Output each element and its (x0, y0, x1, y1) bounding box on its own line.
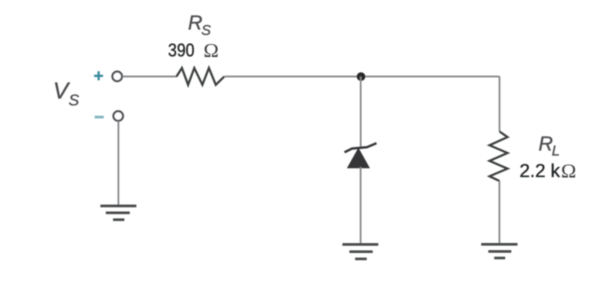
svg-text:R: R (539, 133, 553, 155)
node - terminal (source negative) (95, 116, 104, 119)
left ground (100, 206, 136, 220)
wire junction down to zener (360, 77, 362, 149)
svg-text:+: + (94, 66, 104, 85)
svg-text:390: 390 (168, 40, 195, 60)
zener diode D1 anode triangle (348, 149, 369, 168)
wire right corner down to resistor RL (499, 77, 501, 132)
terminal circle bottom (113, 111, 123, 121)
wire resistor RS to right corner (224, 76, 499, 78)
wire - terminal down to left ground (117, 121, 119, 206)
svg-text:L: L (552, 143, 560, 159)
svg-text:R: R (188, 12, 202, 34)
svg-text:2.2 k: 2.2 k (520, 161, 562, 181)
svg-text:S: S (201, 23, 211, 39)
right ground (481, 244, 517, 258)
wire zener to middle ground (360, 167, 362, 244)
middle ground (342, 244, 378, 259)
wire resistor RL to right ground (498, 181, 500, 244)
svg-text:S: S (69, 93, 80, 110)
resistor RS zigzag (177, 68, 225, 85)
zener diode D1 cathode bar (345, 143, 377, 152)
svg-text:Ω: Ω (204, 40, 219, 62)
svg-text:Ω: Ω (561, 161, 576, 183)
resistor RL zigzag (490, 132, 508, 182)
terminal circle top (112, 72, 122, 82)
wire from + terminal to resistor RS (122, 76, 177, 78)
junction node dot (357, 72, 366, 81)
